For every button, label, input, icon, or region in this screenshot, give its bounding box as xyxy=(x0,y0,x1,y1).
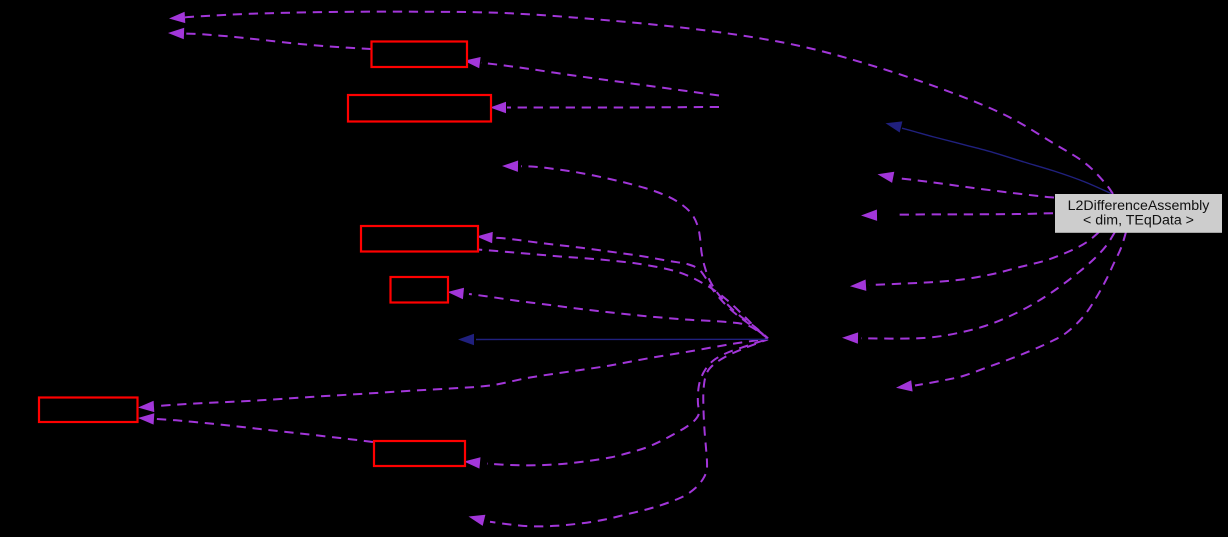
node box B6 (red outlined class node) xyxy=(374,441,465,466)
edge: hub node to box B6 (usage, dashed) xyxy=(464,339,768,469)
edge: L2DifferenceAssembly to hidden node (usage, dashed) xyxy=(878,172,1055,198)
edge: box B3 to hub node (usage, dashed) xyxy=(478,250,768,339)
edge: hub node to box B4 (usage, dashed) xyxy=(448,288,769,339)
edge: hub node to hidden node 5 (usage, dashed) xyxy=(502,161,768,339)
edge: L2DifferenceAssembly to hidden node 2 (usage, dashed) xyxy=(861,210,1053,221)
edge: hub node to bottom hidden node (usage, dashed) xyxy=(469,339,769,526)
edge: hidden node N1 to box B1 (usage, dashed) xyxy=(464,57,719,96)
edge: hub node to box B3 (usage, dashed) xyxy=(477,232,769,339)
node L2DifferenceAssembly< dim, TEqData > (current class, grey filled) xyxy=(1055,194,1222,233)
edge: L2DifferenceAssembly to top-left node (usage, dashed) xyxy=(169,12,1113,194)
edge: L2DifferenceAssembly to hub node (usage, dashed) xyxy=(842,232,1115,344)
edge: box B6 to box B5 (usage, dashed) xyxy=(138,413,373,442)
edge: box B1 to top-left node 2 (usage, dashed) xyxy=(168,28,371,49)
edge: hub node to box B5 (usage, dashed) xyxy=(138,339,768,412)
svg-text:L2DifferenceAssembly: L2DifferenceAssembly xyxy=(1068,198,1211,214)
node box B2 (red outlined class node) xyxy=(348,95,491,122)
node box B5 (red outlined class node) xyxy=(39,398,138,423)
edge: hub node to left base class node (inheritance, solid blue) xyxy=(458,334,768,345)
edge: L2DifferenceAssembly to hidden node 3 (usage, dashed) xyxy=(850,232,1099,291)
svg-text:< dim, TEqData >: < dim, TEqData > xyxy=(1083,213,1194,229)
node box B1 (red outlined class node) xyxy=(372,42,468,68)
edge: L2DifferenceAssembly to hidden node 4 (usage, dashed) xyxy=(896,232,1126,392)
node box B3 (red outlined class node) xyxy=(361,226,478,252)
edge: hidden node N1 to box B2 (usage, dashed) xyxy=(490,102,719,113)
node box B4 (red outlined class node) xyxy=(391,277,449,303)
edge: L2DifferenceAssembly to base class node (inheritance, solid blue) xyxy=(886,121,1112,193)
